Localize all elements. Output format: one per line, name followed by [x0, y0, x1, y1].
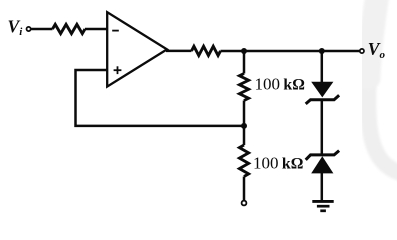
svg-text:100 kΩ: 100 kΩ — [255, 75, 305, 94]
svg-text:100 kΩ: 100 kΩ — [253, 154, 303, 173]
